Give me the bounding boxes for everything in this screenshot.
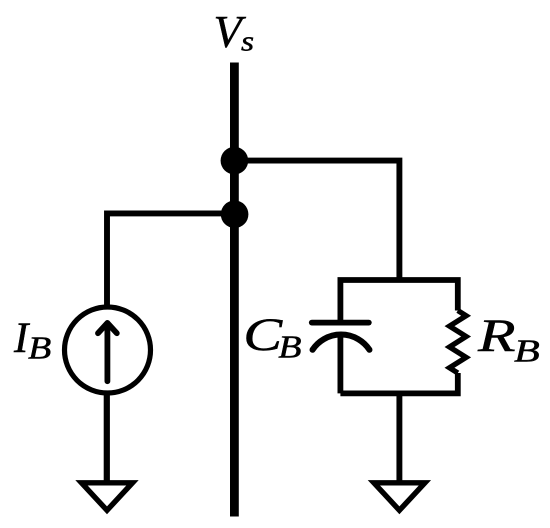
svg-text:B: B xyxy=(278,330,301,365)
wire capacitor bottom to box xyxy=(337,335,343,394)
wire junction A to right branch xyxy=(234,161,399,280)
current source IB arrow xyxy=(98,323,117,381)
label IB xyxy=(13,315,51,366)
wire box to right ground xyxy=(396,393,402,480)
wire RC box bottom xyxy=(340,373,457,393)
wire Vs rail (thick vertical bus) xyxy=(230,63,239,517)
wire junction B to left branch xyxy=(107,213,235,307)
label CB xyxy=(243,309,301,365)
label RB xyxy=(477,309,540,369)
svg-text:R: R xyxy=(477,309,516,361)
node junction B (rail to current source) xyxy=(221,201,249,229)
wire current source to left ground xyxy=(104,392,110,481)
current source IB (circle) xyxy=(65,307,151,393)
svg-text:B: B xyxy=(514,334,540,369)
label Vs (supply net) xyxy=(214,6,255,57)
ground (left) xyxy=(82,483,133,511)
ground (right) xyxy=(374,483,425,511)
capacitor CB curved plate xyxy=(313,335,370,350)
resistor RB (zigzag) xyxy=(450,311,467,374)
capacitor CB top plate xyxy=(312,320,369,326)
svg-text:B: B xyxy=(28,331,51,366)
svg-text:C: C xyxy=(243,309,283,360)
wire RC box top xyxy=(340,280,457,322)
svg-text:s: s xyxy=(241,25,254,57)
node junction A (rail to RC branch) xyxy=(221,147,249,175)
